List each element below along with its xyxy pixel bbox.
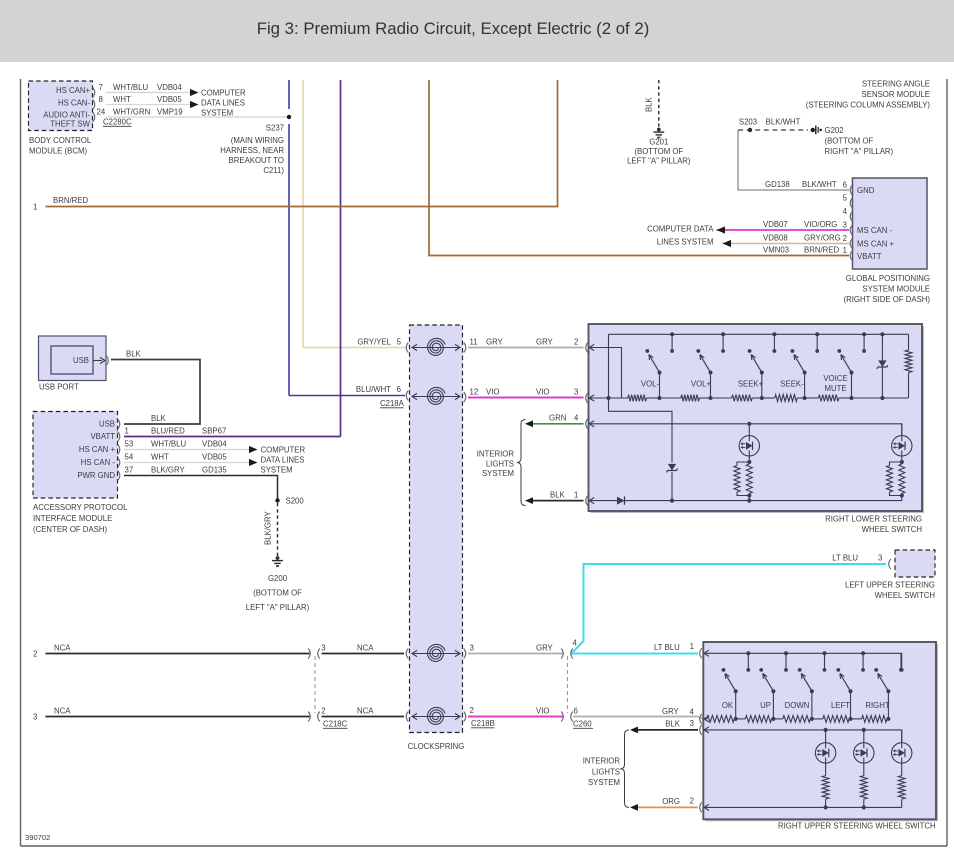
svg-text:USB: USB bbox=[99, 420, 115, 429]
svg-text:LINES SYSTEM: LINES SYSTEM bbox=[657, 238, 714, 247]
svg-text:GND: GND bbox=[857, 186, 875, 195]
module right lower steering wheel switch bbox=[589, 324, 925, 534]
svg-text:BLK/GRY: BLK/GRY bbox=[264, 511, 273, 545]
parallel resistors at x=901.8 bbox=[887, 462, 905, 501]
svg-text:MS CAN -: MS CAN - bbox=[857, 226, 892, 235]
svg-text:RIGHT "A" PILLAR): RIGHT "A" PILLAR) bbox=[825, 147, 894, 156]
svg-text:3: 3 bbox=[33, 713, 37, 722]
svg-text:OK: OK bbox=[722, 701, 734, 710]
svg-text:LIGHTS: LIGHTS bbox=[486, 460, 514, 469]
BCM pin 7 bbox=[93, 83, 103, 98]
computer data lines system reference (BCM) bbox=[190, 89, 246, 118]
wire WHT VDB05 (APIM) bbox=[124, 453, 249, 463]
component clockspring bbox=[408, 325, 465, 751]
svg-text:VMN03: VMN03 bbox=[763, 246, 789, 255]
svg-text:VIO: VIO bbox=[486, 388, 499, 397]
svg-text:390702: 390702 bbox=[25, 833, 50, 842]
connector C218B bbox=[471, 719, 495, 728]
wire GD138 BLK/WHT bbox=[738, 130, 849, 190]
svg-text:8: 8 bbox=[99, 95, 103, 104]
svg-text:G202: G202 bbox=[825, 126, 844, 135]
USB port pin bbox=[93, 356, 108, 366]
wire 2 NCA (right of C218C) bbox=[322, 644, 405, 654]
switch box bus drop to chain bbox=[606, 334, 610, 400]
resistor (chain) 5 bbox=[805, 395, 852, 402]
switch RIGHT bbox=[865, 653, 903, 721]
switch LEFT bbox=[831, 651, 865, 721]
clockspring coil at y=716.5 bbox=[412, 707, 460, 724]
svg-text:NCA: NCA bbox=[54, 644, 71, 653]
switch VOL+ bbox=[691, 332, 725, 400]
BCM pin 24 bbox=[93, 108, 106, 123]
ground G201 bbox=[627, 128, 691, 166]
svg-text:RIGHT: RIGHT bbox=[865, 701, 889, 710]
svg-text:BLK/WHT: BLK/WHT bbox=[802, 180, 837, 189]
svg-text:CLOCKSPRING: CLOCKSPRING bbox=[408, 742, 465, 751]
wire 1 BRN/RED bbox=[33, 80, 558, 212]
svg-text:ORG: ORG bbox=[662, 797, 680, 806]
svg-text:SYSTEM MODULE: SYSTEM MODULE bbox=[862, 285, 930, 294]
svg-text:BLK/WHT: BLK/WHT bbox=[766, 118, 801, 127]
svg-text:53: 53 bbox=[125, 440, 134, 449]
svg-text:BLU/RED: BLU/RED bbox=[151, 427, 185, 436]
svg-text:GLOBAL POSITIONING: GLOBAL POSITIONING bbox=[846, 274, 930, 283]
LED indicator at x=901.8 bbox=[892, 424, 912, 464]
svg-text:GD135: GD135 bbox=[202, 466, 227, 475]
svg-text:3: 3 bbox=[470, 644, 474, 653]
wire BLK interior lights (upper) bbox=[630, 720, 698, 734]
svg-text:1: 1 bbox=[574, 491, 578, 500]
svg-text:VOL+: VOL+ bbox=[691, 380, 712, 389]
wire BLU/RED SBP67 vertical bbox=[340, 80, 342, 437]
svg-text:2: 2 bbox=[33, 650, 37, 659]
svg-text:6: 6 bbox=[574, 707, 578, 716]
wire LT BLU to right upper switch bbox=[572, 643, 699, 654]
module APIM (Accessory Protocol Interface Module) bbox=[33, 412, 128, 535]
svg-text:HS CAN -: HS CAN - bbox=[81, 458, 116, 467]
wire WHT VDB05 bbox=[106, 95, 190, 105]
svg-text:GD138: GD138 bbox=[765, 180, 790, 189]
svg-text:GRN: GRN bbox=[549, 414, 566, 423]
svg-text:VBATT: VBATT bbox=[857, 252, 882, 261]
svg-text:DATA LINES: DATA LINES bbox=[201, 99, 245, 108]
svg-text:2: 2 bbox=[321, 707, 325, 716]
switch box pin 3 entry / resistor chain bbox=[586, 393, 628, 403]
GPS pin 5 bbox=[843, 194, 853, 209]
clockspring coil at y=653.5 bbox=[412, 644, 460, 661]
svg-text:VMP19: VMP19 bbox=[157, 108, 183, 117]
svg-text:WHEEL SWITCH: WHEEL SWITCH bbox=[875, 591, 935, 600]
ground G200 bbox=[246, 556, 310, 612]
svg-text:SEEK-: SEEK- bbox=[780, 380, 804, 389]
clockspring pin 12 bbox=[464, 388, 478, 403]
wire WHT/GRN VMP19 bbox=[106, 108, 289, 118]
svg-text:4: 4 bbox=[573, 639, 578, 648]
splice S203 bbox=[739, 118, 757, 133]
computer data lines system reference (GPS) bbox=[647, 225, 731, 248]
resistor below LED at x=825.6 bbox=[822, 763, 829, 809]
APIM pin USB bbox=[118, 419, 120, 429]
svg-text:INTERIOR: INTERIOR bbox=[477, 450, 515, 459]
svg-text:LEFT: LEFT bbox=[831, 701, 850, 710]
switch DOWN bbox=[785, 651, 827, 721]
clockspring pin 3 (lower right) bbox=[464, 644, 474, 659]
GPS pin 6 bbox=[843, 181, 853, 196]
svg-text:LIGHTS: LIGHTS bbox=[592, 768, 620, 777]
svg-text:SYSTEM: SYSTEM bbox=[482, 469, 514, 478]
svg-text:(STEERING COLUMN ASSEMBLY): (STEERING COLUMN ASSEMBLY) bbox=[806, 101, 931, 110]
connector C218A bbox=[380, 399, 405, 408]
svg-text:BLK: BLK bbox=[151, 414, 167, 423]
svg-text:SENSOR MODULE: SENSOR MODULE bbox=[862, 90, 930, 99]
resistor (upper chain) 5 bbox=[851, 716, 889, 723]
svg-text:NCA: NCA bbox=[357, 707, 374, 716]
upper switch pin 2 entry / return bus bbox=[690, 797, 902, 813]
svg-text:(BOTTOM OF: (BOTTOM OF bbox=[825, 137, 874, 146]
switch VOICE MUTE bbox=[823, 332, 866, 400]
svg-text:SYSTEM: SYSTEM bbox=[201, 109, 233, 118]
svg-text:VDB07: VDB07 bbox=[763, 220, 788, 229]
LED indicator (upper) at x=863.8 bbox=[854, 728, 874, 763]
wire BLU/WHT vertical bbox=[289, 80, 405, 396]
resistor (chain) 3 bbox=[711, 395, 762, 402]
svg-text:VDB04: VDB04 bbox=[202, 440, 227, 449]
wire 3 NCA bbox=[33, 707, 310, 722]
svg-text:G200: G200 bbox=[268, 574, 288, 583]
svg-text:UP: UP bbox=[760, 701, 771, 710]
clockspring coil at y=396.5 bbox=[412, 387, 460, 404]
svg-text:NCA: NCA bbox=[357, 644, 374, 653]
svg-text:3: 3 bbox=[843, 221, 847, 230]
svg-text:BLK: BLK bbox=[665, 720, 681, 729]
resistor (upper chain) 1 bbox=[704, 716, 736, 723]
svg-text:C218B: C218B bbox=[471, 719, 495, 728]
svg-text:6: 6 bbox=[843, 181, 847, 190]
svg-text:3: 3 bbox=[574, 388, 578, 397]
svg-text:DATA LINES: DATA LINES bbox=[261, 456, 305, 465]
svg-text:24: 24 bbox=[97, 108, 106, 117]
svg-text:STEERING ANGLE: STEERING ANGLE bbox=[862, 80, 930, 89]
svg-text:VBATT: VBATT bbox=[90, 432, 115, 441]
resistor below LED at x=901.7 bbox=[898, 763, 905, 807]
module GPS (Global Positioning System Module) bbox=[844, 178, 931, 304]
switch box top bus bbox=[609, 333, 909, 335]
svg-text:BLK: BLK bbox=[126, 350, 142, 359]
LED indicator (upper) at x=901.7 bbox=[892, 730, 912, 763]
switch SEEK+ bbox=[738, 332, 777, 400]
switch box pin 2 entry bbox=[586, 343, 622, 399]
svg-text:MS CAN +: MS CAN + bbox=[857, 240, 894, 249]
module BCM (Body Control Module) bbox=[29, 81, 93, 156]
svg-text:(BOTTOM OF: (BOTTOM OF bbox=[253, 589, 302, 598]
wire GRN interior lights bbox=[525, 414, 584, 428]
wire BLK to G201 bbox=[645, 80, 659, 128]
svg-text:2: 2 bbox=[690, 797, 694, 806]
svg-text:INTERIOR: INTERIOR bbox=[583, 757, 621, 766]
svg-text:5: 5 bbox=[843, 194, 848, 203]
LED indicator (upper) at x=825.6 bbox=[815, 728, 835, 763]
wire BLU/WHT label bbox=[356, 385, 391, 394]
connector C218C bbox=[315, 656, 348, 729]
svg-text:USB PORT: USB PORT bbox=[39, 383, 79, 392]
svg-text:HS CAN-: HS CAN- bbox=[58, 99, 90, 108]
svg-text:NCA: NCA bbox=[54, 707, 71, 716]
figure number 390702 bbox=[25, 833, 50, 842]
branch to zener (lower) bbox=[609, 398, 673, 501]
svg-text:WHEEL SWITCH: WHEEL SWITCH bbox=[862, 525, 922, 534]
switch SEEK- bbox=[780, 332, 819, 400]
resistor (upper chain) 4 bbox=[812, 716, 851, 723]
clockspring pin 2 (lower right) bbox=[464, 706, 474, 722]
svg-text:MODULE (BCM): MODULE (BCM) bbox=[29, 147, 87, 156]
svg-text:3: 3 bbox=[878, 554, 882, 563]
svg-text:3: 3 bbox=[321, 644, 325, 653]
wire GRY clockspring to switch bbox=[468, 338, 584, 348]
svg-text:5: 5 bbox=[397, 338, 402, 347]
svg-text:MUTE: MUTE bbox=[824, 384, 846, 393]
upper switch pin 1 entry / top bus bbox=[690, 642, 904, 672]
splice S200 bbox=[275, 497, 304, 506]
svg-text:Fig 3: Premium Radio Circuit,: Fig 3: Premium Radio Circuit, Except Ele… bbox=[257, 19, 650, 38]
svg-text:BREAKOUT TO: BREAKOUT TO bbox=[229, 156, 284, 165]
switch box pin 1 entry / ground bus bbox=[586, 496, 902, 506]
svg-text:BODY CONTROL: BODY CONTROL bbox=[29, 136, 92, 145]
component USB port bbox=[39, 336, 107, 392]
connector C260 pin 4 bbox=[561, 639, 577, 659]
switch box pin 4 entry / lamp feed bbox=[586, 419, 902, 436]
wire GRY/YEL label bbox=[357, 338, 391, 347]
svg-text:12: 12 bbox=[470, 388, 479, 397]
junction dots ground bus bbox=[747, 499, 751, 503]
svg-text:RIGHT LOWER STEERING: RIGHT LOWER STEERING bbox=[825, 515, 922, 524]
module label steering angle sensor bbox=[806, 80, 931, 110]
wire WHT/BLU VDB04 (APIM) bbox=[124, 440, 249, 450]
svg-text:GRY: GRY bbox=[486, 338, 504, 347]
clockspring lower-left pins bbox=[406, 649, 408, 722]
svg-text:1: 1 bbox=[843, 246, 847, 255]
svg-text:VOL-: VOL- bbox=[641, 380, 660, 389]
svg-text:2: 2 bbox=[470, 706, 474, 715]
wire BRN/RED to GPS VBATT vertical bbox=[429, 80, 849, 256]
svg-text:THEFT SW: THEFT SW bbox=[50, 120, 90, 129]
wire WHT/BLU VDB04 bbox=[106, 83, 190, 93]
svg-text:4: 4 bbox=[843, 207, 848, 216]
resistor (upper chain) 3 bbox=[773, 716, 812, 723]
module left upper steering wheel switch bbox=[845, 550, 935, 600]
svg-text:HS CAN +: HS CAN + bbox=[79, 445, 116, 454]
svg-text:C218A: C218A bbox=[380, 399, 405, 408]
svg-text:C211): C211) bbox=[263, 166, 284, 175]
switch OK bbox=[722, 651, 751, 721]
svg-text:LT BLU: LT BLU bbox=[654, 643, 680, 652]
svg-text:54: 54 bbox=[125, 453, 134, 462]
svg-text:1: 1 bbox=[33, 203, 37, 212]
wire GRY to right upper switch bbox=[573, 707, 703, 719]
title bar bbox=[0, 0, 954, 62]
diode on ground bus bbox=[617, 496, 625, 504]
svg-text:6: 6 bbox=[397, 385, 401, 394]
svg-text:LEFT "A" PILLAR): LEFT "A" PILLAR) bbox=[627, 157, 691, 166]
connector C218C pin 2 bbox=[308, 707, 325, 722]
svg-text:VDB05: VDB05 bbox=[202, 453, 227, 462]
svg-text:(BOTTOM OF: (BOTTOM OF bbox=[634, 147, 683, 156]
APIM pin 53 bbox=[118, 440, 133, 455]
wire BLK/GRY GD135 bbox=[124, 466, 278, 501]
wire BLK/GRY to G200 bbox=[264, 503, 278, 556]
BCM pin 8 bbox=[93, 95, 103, 110]
wire ORG interior lights bbox=[630, 797, 698, 811]
switch UP bbox=[759, 651, 788, 721]
svg-text:WHT: WHT bbox=[113, 95, 131, 104]
svg-text:S200: S200 bbox=[286, 497, 305, 506]
svg-text:SYSTEM: SYSTEM bbox=[261, 466, 293, 475]
svg-text:COMPUTER: COMPUTER bbox=[261, 446, 306, 455]
svg-text:HARNESS, NEAR: HARNESS, NEAR bbox=[220, 146, 284, 155]
svg-text:37: 37 bbox=[125, 466, 134, 475]
svg-text:WHT/BLU: WHT/BLU bbox=[151, 440, 186, 449]
svg-text:SBP67: SBP67 bbox=[202, 427, 226, 436]
resistor (chain) 2 bbox=[660, 395, 711, 402]
APIM pin 37 bbox=[118, 466, 133, 481]
wire 2 NCA bbox=[33, 644, 310, 659]
resistor below LED at x=863.8 bbox=[860, 763, 867, 809]
svg-text:BLK: BLK bbox=[550, 491, 566, 500]
svg-text:LEFT "A" PILLAR): LEFT "A" PILLAR) bbox=[246, 603, 310, 612]
svg-text:GRY/ORG: GRY/ORG bbox=[804, 234, 841, 243]
wire VMN03 BRN/RED labels bbox=[763, 246, 839, 255]
upper switch pin 4 entry bbox=[690, 708, 709, 724]
svg-text:4: 4 bbox=[574, 414, 579, 423]
svg-text:S237: S237 bbox=[266, 124, 284, 133]
svg-text:11: 11 bbox=[470, 338, 478, 347]
svg-text:WHT: WHT bbox=[151, 453, 169, 462]
clockspring coil at y=347.5 bbox=[412, 338, 460, 355]
svg-text:PWR GND: PWR GND bbox=[77, 471, 115, 480]
module right upper steering wheel switch bbox=[703, 642, 938, 831]
resistor (chain) 1 bbox=[609, 395, 660, 402]
LED indicator at x=749.3 bbox=[739, 422, 759, 464]
APIM pin 1 bbox=[118, 427, 129, 442]
parallel resistors at x=749.3 bbox=[734, 462, 752, 501]
GPS pin 1 bbox=[843, 246, 853, 261]
wire GRY clockspring pin 3 to C260 bbox=[468, 644, 563, 654]
svg-text:VDB04: VDB04 bbox=[157, 83, 182, 92]
wire BLK/WHT S203 to G202 bbox=[738, 118, 808, 131]
interior lights system reference (lower switch) bbox=[477, 420, 526, 506]
clockspring pin 11 bbox=[464, 338, 478, 353]
svg-text:RIGHT UPPER STEERING WHEEL SWI: RIGHT UPPER STEERING WHEEL SWITCH bbox=[778, 822, 936, 831]
svg-text:VIO: VIO bbox=[536, 388, 549, 397]
connector C2280C bbox=[103, 118, 132, 127]
svg-text:SYSTEM: SYSTEM bbox=[588, 778, 620, 787]
svg-text:(CENTER OF DASH): (CENTER OF DASH) bbox=[33, 525, 107, 534]
wire BLK USB bbox=[111, 350, 200, 425]
svg-text:AUDIO ANTI-: AUDIO ANTI- bbox=[43, 111, 90, 120]
svg-text:BLK: BLK bbox=[645, 96, 654, 112]
svg-text:WHT/BLU: WHT/BLU bbox=[113, 83, 148, 92]
GPS pin 4 bbox=[843, 207, 853, 222]
svg-text:2: 2 bbox=[574, 338, 578, 347]
APIM pin 54 bbox=[118, 453, 134, 468]
svg-text:GRY: GRY bbox=[662, 707, 680, 716]
switch VOL- bbox=[641, 332, 674, 400]
svg-text:WHT/GRN: WHT/GRN bbox=[113, 108, 150, 117]
svg-text:7: 7 bbox=[99, 83, 103, 92]
wire LT BLU to left upper switch bbox=[572, 554, 887, 654]
svg-text:4: 4 bbox=[690, 708, 695, 717]
svg-text:G201: G201 bbox=[649, 138, 668, 147]
resistor (upper chain) 2 bbox=[736, 716, 774, 723]
svg-text:BLK/GRY: BLK/GRY bbox=[151, 466, 185, 475]
wire VIO clockspring pin 2 to C260 bbox=[468, 707, 563, 717]
svg-text:BRN/RED: BRN/RED bbox=[53, 196, 88, 205]
svg-text:1: 1 bbox=[690, 642, 694, 651]
GPS pin 3 bbox=[843, 221, 853, 236]
svg-text:VIO: VIO bbox=[536, 707, 549, 716]
svg-text:2: 2 bbox=[843, 234, 847, 243]
connector C260 pin 6 bbox=[561, 707, 578, 722]
svg-text:USB: USB bbox=[73, 356, 89, 365]
interior lights system reference (upper switch) bbox=[583, 730, 629, 807]
svg-text:VDB05: VDB05 bbox=[157, 95, 182, 104]
svg-text:BRN/RED: BRN/RED bbox=[804, 246, 839, 255]
svg-text:C260: C260 bbox=[573, 720, 592, 729]
wire BLU/RED SBP67 bbox=[124, 427, 341, 437]
svg-text:C218C: C218C bbox=[323, 720, 348, 729]
splice S237 bbox=[220, 115, 291, 175]
GPS pin 2 bbox=[843, 234, 853, 249]
computer data lines system reference (APIM) bbox=[249, 446, 305, 475]
svg-text:GRY/YEL: GRY/YEL bbox=[357, 338, 391, 347]
resistor (chain) 4 bbox=[762, 395, 805, 402]
svg-text:VOICE: VOICE bbox=[823, 374, 847, 383]
svg-text:SEEK+: SEEK+ bbox=[738, 380, 764, 389]
svg-text:LT BLU: LT BLU bbox=[832, 554, 858, 563]
wire 3 NCA (right of C218C) bbox=[322, 707, 405, 717]
svg-text:VIO/ORG: VIO/ORG bbox=[804, 220, 837, 229]
svg-text:1: 1 bbox=[125, 427, 129, 436]
svg-text:ACCESSORY PROTOCOL: ACCESSORY PROTOCOL bbox=[33, 503, 128, 512]
svg-text:LEFT UPPER STEERING: LEFT UPPER STEERING bbox=[845, 581, 935, 590]
svg-text:HS CAN+: HS CAN+ bbox=[56, 86, 90, 95]
svg-text:INTERFACE MODULE: INTERFACE MODULE bbox=[33, 514, 112, 523]
svg-text:GRY: GRY bbox=[536, 338, 554, 347]
svg-text:(MAIN WIRING: (MAIN WIRING bbox=[231, 136, 284, 145]
resistor (top right) bbox=[882, 334, 912, 398]
svg-text:3: 3 bbox=[690, 719, 694, 728]
connector C218C pin 3 bbox=[308, 644, 325, 659]
connector C260 bbox=[568, 656, 594, 729]
wire VIO clockspring to switch bbox=[468, 388, 584, 398]
wire VDB08 GRY/ORG bbox=[723, 234, 850, 244]
clockspring pin 6 bbox=[397, 385, 409, 401]
zener diode (lower) bbox=[667, 464, 678, 503]
svg-text:C2280C: C2280C bbox=[103, 118, 132, 127]
zener diode (top right) bbox=[852, 332, 888, 400]
ground G202 bbox=[811, 126, 894, 157]
wire BLK switch ground bbox=[525, 491, 584, 505]
upper switch pin 3 entry / LED bus bbox=[690, 719, 902, 742]
svg-text:(RIGHT SIDE OF DASH): (RIGHT SIDE OF DASH) bbox=[844, 295, 931, 304]
svg-text:BLU/WHT: BLU/WHT bbox=[356, 385, 391, 394]
svg-text:S203: S203 bbox=[739, 118, 757, 127]
svg-text:DOWN: DOWN bbox=[785, 701, 810, 710]
svg-text:COMPUTER: COMPUTER bbox=[201, 89, 246, 98]
svg-text:VDB08: VDB08 bbox=[763, 234, 788, 243]
wire GRY/YEL vertical bbox=[303, 80, 405, 348]
svg-text:GRY: GRY bbox=[536, 644, 554, 653]
wire VDB07 VIO/ORG bbox=[717, 220, 850, 230]
